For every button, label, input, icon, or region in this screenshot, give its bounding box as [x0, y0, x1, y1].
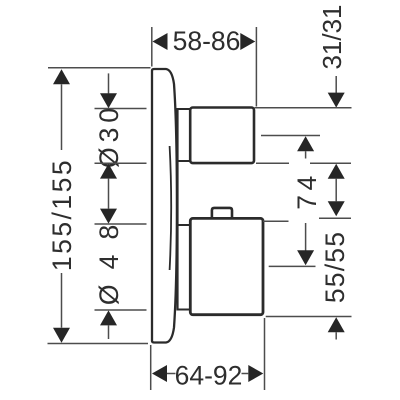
- extension line D (y=310): [95, 309, 147, 311]
- 74 up arrow: [297, 136, 314, 151]
- extension line bottom of top knob (right, y=163.3) segment 1: [256, 162, 289, 164]
- right chain line between arrows: [335, 179, 337, 202]
- sleeve of bottom knob: [177, 225, 190, 310]
- 155/155 top arrow: [53, 69, 70, 84]
- svg-text:64-92: 64-92: [175, 361, 243, 391]
- left chain tail above line A: [108, 73, 110, 93]
- extension line bottom of top knob (right, y=163.3) segment 2: [310, 162, 351, 164]
- plate (escutcheon side silhouette): [152, 69, 177, 343]
- svg-text:155/155: 155/155: [47, 158, 77, 271]
- plate inner contour line: [170, 146, 172, 270]
- 64-92 dimension line left tail: [167, 373, 176, 375]
- extension line bottom-right (x=264.5): [264, 318, 266, 390]
- 155/155 dimension line lower part: [61, 273, 63, 328]
- extension line C (y=224): [95, 223, 147, 225]
- svg-text:55/55: 55/55: [320, 231, 350, 303]
- dimension 58-86 left arrow: [153, 33, 168, 50]
- right chain down arrow to y=218.4: [328, 201, 345, 216]
- 74 dimension line upper: [305, 151, 307, 158]
- extension line bottom-left (x=150.7): [150, 345, 152, 390]
- 31/31 dimension line: [335, 76, 337, 93]
- extension line top of bottom knob (right, y=218.4) segment 1: [263, 220, 289, 222]
- extension line top-left (x=151.8): [151, 27, 153, 67]
- sleeve of top knob: [177, 109, 190, 161]
- extension line top of bottom knob (right, y=218.4) segment 2: [319, 217, 351, 219]
- left chain down arrow to line A: [100, 93, 117, 108]
- svg-text:Ø 4 8: Ø 4 8: [94, 221, 124, 305]
- 155/155 dimension line upper part: [61, 84, 63, 150]
- dimension 58-86 right arrow: [240, 33, 255, 50]
- left chain line between B and C arrows: [108, 179, 110, 209]
- 155/155 bottom arrow: [53, 328, 70, 343]
- left chain up arrow to line D: [100, 310, 117, 325]
- 64-92 left arrow: [152, 365, 167, 382]
- right chain up arrow to y=163.3: [328, 164, 345, 179]
- bottom knob: [190, 218, 263, 314]
- svg-text:74: 74: [292, 171, 322, 209]
- 64-92 right arrow: [248, 365, 263, 382]
- 74 down arrow: [297, 250, 314, 265]
- 74 dimension line lower: [305, 223, 307, 251]
- extension line bottom of bottom knob (right, y=316.5): [266, 316, 352, 318]
- centerline of top knob (y=135.5): [261, 135, 320, 137]
- sleeve cylinder silhouette: [177, 109, 179, 310]
- extension line top of knob (right, y=107.8): [255, 107, 352, 109]
- 155/155 top extension line: [48, 67, 151, 69]
- 155/155 bottom extension line: [48, 343, 149, 345]
- extension line top-right (x=256.4): [255, 27, 257, 107]
- svg-text:58-86: 58-86: [173, 26, 241, 56]
- right chain up arrow to y=316.5: [328, 317, 345, 332]
- top knob: [190, 108, 254, 164]
- left chain tail below line D: [108, 325, 110, 339]
- svg-text:31/31: 31/31: [317, 4, 347, 69]
- extension line B (y=163.2): [95, 162, 147, 164]
- extension line A (y=108.5): [95, 108, 147, 110]
- right chain tail below: [335, 332, 337, 339]
- left chain down arrow to line C: [100, 209, 117, 224]
- tab on bottom knob: [212, 208, 232, 219]
- 64-92 dimension line right tail: [242, 373, 249, 375]
- left chain up arrow to line B: [100, 164, 117, 179]
- centerline of bottom knob (y=266.4): [269, 265, 316, 267]
- 31/31 down arrow: [328, 93, 345, 108]
- svg-text:Ø30: Ø30: [94, 103, 124, 168]
